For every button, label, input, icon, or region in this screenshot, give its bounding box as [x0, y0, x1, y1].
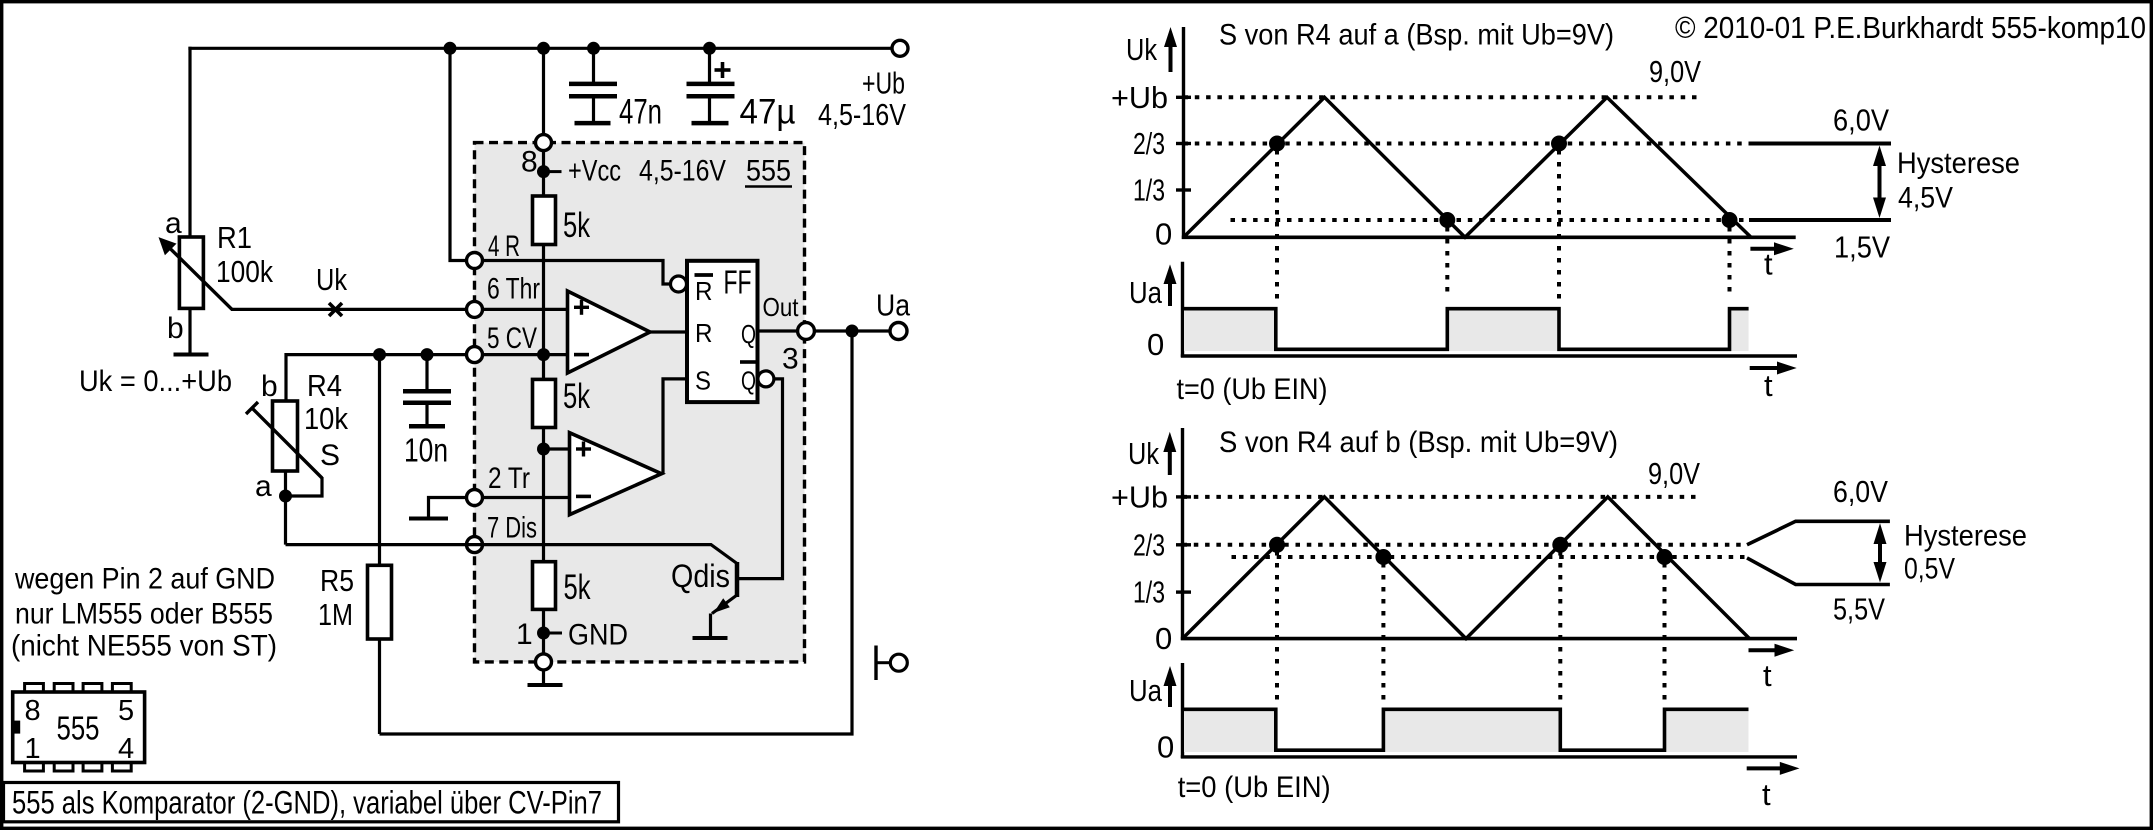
junction: rail / 47n: [587, 42, 600, 55]
svg-text:4,5-16V: 4,5-16V: [639, 155, 726, 188]
diagram B: Ua axis arrow: [1164, 666, 1177, 707]
comparator U1b (trigger): [570, 433, 662, 515]
svg-text:5k: 5k: [563, 206, 590, 245]
svg-text:100k: 100k: [216, 254, 273, 289]
wire: Q-bar to Qdis base: [739, 379, 783, 579]
diagram B: Ua square waveform: [1183, 709, 1749, 750]
diagram A: dotted drop line 4: [1728, 227, 1732, 297]
svg-text:Hysterese: Hysterese: [1897, 147, 2020, 180]
diagram A: switch point 2: [1439, 212, 1455, 228]
x marker on Uk wire: [329, 303, 342, 316]
svg-text:8: 8: [521, 146, 538, 179]
caption box: [4, 783, 619, 822]
ground (pin 2): [409, 517, 448, 521]
svg-text:wegen Pin 2 auf GND: wegen Pin 2 auf GND: [14, 563, 275, 596]
resistor 5k middle: [533, 379, 556, 427]
svg-text:2 Tr: 2 Tr: [488, 462, 530, 495]
svg-text:a: a: [165, 207, 182, 240]
wire: rail to pin 8: [542, 48, 545, 135]
terminal bar (R1 b): [174, 353, 209, 357]
svg-text:Uk: Uk: [1128, 436, 1159, 471]
junction: CV / R5: [373, 348, 386, 361]
svg-text:Q: Q: [741, 319, 756, 349]
wire: Uk node (R1 wiper to pin 6 Thr): [231, 308, 467, 311]
terminal (output return): [876, 646, 907, 681]
svg-text:0: 0: [1155, 621, 1172, 656]
diagram B: tick 2/3: [1176, 543, 1191, 546]
diagram B: Uk axis arrow: [1163, 432, 1176, 475]
diagram B: Ua pulse fill 1: [1184, 711, 1276, 752]
flip-flop FF: [687, 261, 758, 402]
diagram B: triangle waveform Uk: [1183, 497, 1750, 639]
diagram A: hysteresis arrow: [1873, 146, 1886, 219]
svg-text:R: R: [695, 276, 713, 306]
pin 6 circle: [467, 301, 483, 317]
svg-text:+Ub: +Ub: [1111, 80, 1168, 115]
svg-text:Uk: Uk: [316, 262, 347, 297]
svg-text:nur LM555 oder B555: nur LM555 oder B555: [15, 598, 273, 631]
svg-text:Out: Out: [763, 292, 800, 322]
diagram B: switch point 4: [1657, 549, 1673, 565]
resistor 5k lower: [533, 562, 556, 610]
svg-text:t: t: [1764, 246, 1773, 281]
svg-text:4: 4: [118, 733, 134, 765]
svg-text:© 2010-01 P.E.Burkhardt 555-ko: © 2010-01 P.E.Burkhardt 555-komp10: [1675, 10, 2146, 45]
ground bar (47n): [575, 121, 611, 126]
svg-text:6,0V: 6,0V: [1833, 474, 1888, 509]
diagram A: Uk t-axis arrow: [1750, 242, 1793, 255]
terminal Ua: [890, 323, 907, 340]
diagram B: switch point 1: [1269, 537, 1285, 553]
svg-text:47µ: 47µ: [740, 93, 796, 132]
svg-text:S: S: [695, 365, 711, 395]
diagram A: switch point 4: [1722, 212, 1738, 228]
capacitor 47u electrolytic: [687, 48, 735, 123]
resistor 5k upper: [533, 196, 556, 245]
wire: CV net: [286, 355, 568, 401]
diagram A: tick 2/3: [1176, 142, 1191, 145]
svg-text:9,0V: 9,0V: [1648, 456, 1700, 491]
pin 3 circle: [798, 323, 815, 340]
svg-text:6 Thr: 6 Thr: [487, 273, 540, 306]
capacitor 47n: [569, 48, 617, 123]
diagram A: switch point 1: [1269, 136, 1285, 152]
svg-text:555: 555: [57, 709, 100, 746]
diagram B: tick 1/3: [1176, 590, 1191, 593]
diagram A: Ua pulse fill 1: [1184, 310, 1276, 351]
wire: divider 5k upper to 5k middle: [542, 245, 545, 380]
svg-text:t: t: [1762, 777, 1771, 812]
wire: divider 5k middle to 5k lower: [542, 428, 545, 562]
svg-text:Ua: Ua: [1129, 275, 1163, 310]
svg-text:0: 0: [1155, 217, 1172, 252]
svg-text:FF: FF: [724, 264, 752, 301]
potentiometer R1: [159, 47, 233, 353]
terminal +Ub: [892, 40, 908, 56]
comparator U1a (threshold): [568, 291, 651, 373]
svg-text:1: 1: [25, 733, 41, 765]
diagram A: solid 1,5V line: [1749, 218, 1891, 222]
svg-text:10k: 10k: [304, 401, 348, 436]
diagram B: Ua pulse fill 3: [1666, 711, 1749, 752]
svg-text:4,5V: 4,5V: [1898, 181, 1953, 214]
diagram B: Uk t-axis arrow: [1749, 644, 1795, 657]
inversion bubble R-bar: [671, 276, 687, 292]
pin 8 circle: [536, 135, 552, 151]
svg-text:t: t: [1764, 368, 1773, 403]
junction: CV / 10n: [421, 348, 434, 361]
wire: Thr to comparator: [483, 308, 568, 311]
svg-text:555 als Komparator (2-GND), va: 555 als Komparator (2-GND), variabel übe…: [12, 785, 602, 821]
diagram B: Ua y-axis: [1181, 663, 1184, 758]
diagram B: Ua pulse fill 2: [1385, 711, 1559, 752]
diagram A: Ua y-axis: [1181, 262, 1184, 357]
svg-text:Ua: Ua: [1129, 673, 1163, 708]
junction: divider / CV: [537, 348, 550, 361]
svg-text:R1: R1: [217, 220, 252, 255]
wire: output feedback down to bottom: [380, 331, 853, 734]
diagram A: dotted drop line 3: [1557, 150, 1561, 300]
svg-text:R5: R5: [320, 563, 354, 598]
diagram A: dotted drop line 1: [1275, 150, 1279, 300]
diagram B: dotted 2/3 level line: [1183, 543, 1748, 547]
svg-text:Q: Q: [741, 365, 756, 395]
wire: +Ub supply rail: [188, 47, 892, 50]
diagram A: solid 6,0V line: [1750, 142, 1891, 146]
svg-text:+Ub: +Ub: [1111, 480, 1168, 515]
svg-text:1: 1: [516, 618, 533, 651]
ground (Qdis emitter): [693, 636, 728, 640]
pin 5 circle: [467, 347, 483, 363]
svg-text:5 CV: 5 CV: [487, 322, 537, 355]
diagram A: Ua t-axis arrow: [1750, 362, 1797, 375]
diagram B: fan-out lower line: [1747, 558, 1890, 585]
svg-text:47n: 47n: [619, 93, 662, 132]
diagram B: Uk y-axis: [1181, 428, 1184, 640]
svg-text:7 Dis: 7 Dis: [487, 512, 537, 545]
555 internal dashed box: [475, 143, 805, 662]
junction: R4 wiper / a: [279, 490, 292, 503]
svg-text:4 R: 4 R: [488, 230, 520, 263]
svg-text:R: R: [695, 318, 713, 348]
wire: comparator U1a out to FF R: [650, 330, 687, 333]
diagram A: Ua pulse fill 2: [1449, 310, 1559, 351]
svg-text:2/3: 2/3: [1133, 126, 1165, 161]
diagram A: Ua square waveform: [1183, 309, 1749, 350]
diagram A: Ua pulse fill 3: [1731, 310, 1749, 351]
diagram B: dotted drop line 3: [1558, 551, 1562, 701]
pin 2 circle: [467, 490, 483, 506]
svg-text:8: 8: [25, 695, 41, 727]
svg-text:+Ub: +Ub: [862, 66, 905, 101]
pin 1 circle: [536, 654, 552, 670]
svg-text:5k: 5k: [563, 377, 590, 416]
svg-text:Qdis: Qdis: [671, 558, 730, 594]
transistor Qdis: [467, 545, 738, 638]
svg-text:S: S: [320, 439, 340, 472]
svg-text:555: 555: [746, 155, 791, 188]
ground (pin 1): [528, 670, 563, 685]
svg-text:b: b: [261, 370, 278, 403]
diagram A: triangle waveform Uk: [1184, 97, 1752, 237]
junction: rail / 47u: [703, 42, 716, 55]
svg-text:9,0V: 9,0V: [1649, 54, 1701, 89]
diagram B: dotted drop line 4: [1663, 563, 1667, 701]
diagram B: tick +Ub: [1176, 495, 1191, 498]
svg-text:1/3: 1/3: [1133, 173, 1165, 208]
wire: 5k lower to pin 1: [542, 609, 545, 654]
diagram A: dotted 1,5V level line: [1231, 218, 1751, 222]
diagram B: Uk time axis: [1181, 637, 1797, 641]
svg-text:1,5V: 1,5V: [1834, 230, 1890, 265]
junction: Ua / feedback: [846, 325, 859, 338]
svg-text:0: 0: [1147, 327, 1164, 362]
wire: rail to pin 4: [450, 48, 467, 260]
svg-text:5,5V: 5,5V: [1833, 592, 1885, 627]
svg-text:1/3: 1/3: [1133, 575, 1165, 610]
svg-text:S von R4 auf a (Bsp. mit Ub=9V: S von R4 auf a (Bsp. mit Ub=9V): [1219, 19, 1614, 52]
wire: pin8 into chip: [542, 151, 545, 196]
wire: FF S input from U1b: [663, 379, 687, 474]
pin 7 circle: [467, 537, 483, 553]
svg-text:(nicht NE555 von ST): (nicht NE555 von ST): [11, 630, 277, 663]
note text block: [11, 563, 277, 663]
svg-text:3: 3: [782, 343, 799, 376]
ground bar (10n): [409, 424, 445, 429]
wire: pin 2 to ground: [429, 498, 467, 518]
diagram A: Uk time axis: [1182, 236, 1796, 240]
diagram B: Ua t-axis arrow: [1747, 762, 1800, 775]
diagram A: dotted +Ub level line: [1184, 95, 1701, 99]
junction: divider / comparator U1b +: [537, 443, 550, 456]
svg-text:2/3: 2/3: [1133, 528, 1165, 563]
diagram A: dotted 2/3 level line: [1184, 142, 1751, 146]
svg-text:b: b: [167, 312, 184, 345]
label 555 (underlined): [745, 155, 792, 188]
IC package 555: [13, 684, 145, 772]
diagram B: dotted +Ub level line: [1183, 495, 1698, 499]
svg-text:Uk = 0...+Ub: Uk = 0...+Ub: [79, 365, 232, 398]
resistor R5: [368, 355, 392, 734]
diagram B: dotted drop line 1: [1275, 551, 1279, 701]
capacitor 10n: [403, 355, 451, 426]
pin 4 circle: [467, 253, 483, 269]
wire: Tr to comparator: [483, 496, 570, 499]
diagram A: switch point 3: [1551, 136, 1567, 152]
diagram A: Uk axis arrow: [1164, 27, 1177, 72]
junction pin 1 GND: [537, 627, 562, 640]
svg-text:5: 5: [118, 695, 134, 727]
diagram B: switch point 2: [1375, 549, 1391, 565]
diagram B: hysteresis arrow: [1874, 523, 1887, 582]
wire: pin 3 to Ua: [814, 329, 890, 332]
diagram B: Ua time axis: [1181, 755, 1797, 758]
svg-text:1M: 1M: [318, 597, 353, 632]
svg-text:0,5V: 0,5V: [1904, 553, 1955, 586]
wire: FF Q to pin 3: [758, 329, 798, 332]
junction: rail / pin8 wire: [537, 42, 550, 55]
wire: pin 4 R to FF R-bar: [483, 261, 671, 285]
diagram A: Ua time axis: [1181, 354, 1797, 357]
junction pin 8 (+Vcc): [537, 165, 562, 178]
ground bar (47u): [692, 121, 729, 126]
svg-text:6,0V: 6,0V: [1833, 103, 1889, 138]
diagram B: fan-out upper line: [1747, 521, 1890, 545]
inversion bubble Q-bar: [758, 371, 774, 387]
diagram B: dotted drop line 2: [1381, 563, 1385, 701]
diagram A: dotted drop line 2: [1445, 227, 1449, 297]
svg-text:Hysterese: Hysterese: [1904, 520, 2027, 553]
junction: rail / pin4 wire: [444, 42, 457, 55]
svg-text:R4: R4: [307, 368, 342, 403]
diagram B: dotted lower threshold line: [1232, 555, 1748, 559]
svg-text:t: t: [1763, 658, 1772, 693]
svg-text:+Vcc: +Vcc: [568, 155, 621, 188]
diagram A: tick 1/3: [1176, 188, 1191, 191]
svg-text:10n: 10n: [404, 431, 448, 468]
svg-text:t=0 (Ub EIN): t=0 (Ub EIN): [1177, 373, 1328, 406]
svg-text:Uk: Uk: [1126, 32, 1157, 67]
svg-text:a: a: [255, 470, 272, 503]
potentiometer R4: [246, 401, 322, 545]
diagram A: tick +Ub: [1176, 96, 1191, 99]
diagram A: Uk y-axis: [1182, 27, 1185, 239]
wire: R4 a to pin 7 Dis: [286, 543, 467, 546]
svg-text:GND: GND: [568, 619, 628, 652]
wire: divider tap to U1b +: [544, 447, 570, 450]
svg-text:t=0 (Ub EIN): t=0 (Ub EIN): [1178, 771, 1331, 804]
svg-text:Ua: Ua: [876, 288, 911, 323]
svg-text:0: 0: [1157, 730, 1174, 765]
svg-text:4,5-16V: 4,5-16V: [818, 97, 906, 132]
svg-text:S von R4 auf b (Bsp. mit Ub=9V: S von R4 auf b (Bsp. mit Ub=9V): [1219, 426, 1618, 459]
diagram A: Ua axis arrow: [1164, 264, 1177, 306]
svg-text:5k: 5k: [564, 568, 591, 607]
diagram B: switch point 3: [1552, 537, 1568, 553]
